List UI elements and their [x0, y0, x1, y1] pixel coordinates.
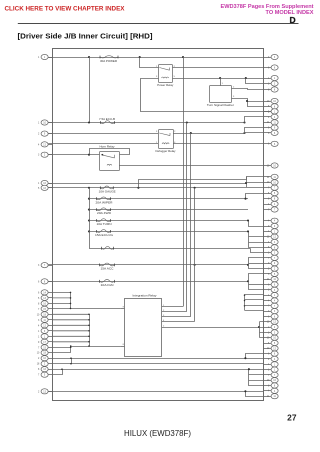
connector pin (right, y=198.6) [264, 196, 279, 201]
wire: bridge group 294.3-310.2 [244, 294, 246, 310]
connector pin (left stack, y=341.8) [38, 339, 52, 344]
node: fan tap (248,231.4) [247, 230, 249, 232]
connector pin (right stack, y=311.1) [264, 309, 279, 314]
svg-text:11: 11 [267, 177, 270, 179]
header rule [18, 23, 299, 25]
svg-text:Horn Relay: Horn Relay [100, 144, 116, 148]
wire: stub 263.2 [249, 263, 264, 265]
wire: TSF output 3 (y=98) [232, 99, 264, 102]
node: A taps [70, 292, 72, 294]
wire: main B+ feed (node 1 to right pin, y=57) [48, 57, 263, 59]
node: bus tap (231.4) [88, 230, 90, 232]
svg-text:6: 6 [38, 281, 40, 283]
node: fan tap (248,281.3) [247, 280, 249, 282]
horn relay box [100, 152, 120, 171]
connector pin (right stack, y=327.0) [264, 324, 279, 329]
connector pin (right, y=209.5) [264, 207, 279, 212]
connector pin (right stack, y=380.2) [264, 378, 279, 383]
svg-text:2: 2 [174, 131, 176, 133]
svg-text:10: 10 [37, 353, 40, 355]
connector pin (right stack, y=295.1) [264, 293, 279, 298]
wire: fan bridge 101-106.3 [248, 102, 264, 107]
svg-text:15A ACC: 15A ACC [101, 266, 115, 270]
horn relay switch contact [101, 155, 115, 158]
junction block frame [53, 49, 264, 401]
node: fan tap (245.4,391.3) [244, 390, 246, 392]
connector pin (right, y=78) [264, 75, 279, 80]
connector pin (right stack, y=247.3) [264, 245, 279, 250]
wire: fan-in A vertical x=70.5 [70, 292, 72, 308]
svg-text:3: 3 [38, 265, 40, 267]
connector pin 1 (left top) [38, 54, 52, 59]
svg-text:12: 12 [267, 237, 270, 239]
svg-text:10A IGN: 10A IGN [101, 283, 114, 287]
node: right fan tap (244.5,133) [243, 132, 245, 134]
svg-text:6: 6 [268, 133, 270, 135]
connector pin (right, y=116.9) [264, 114, 279, 119]
wire: stub 182.3 [247, 182, 264, 184]
wire: ACC row (y=264.9) [48, 264, 248, 266]
svg-text:4: 4 [38, 144, 40, 146]
connector pin (left, y=154.7) [38, 152, 52, 157]
node: horn loop junction (89,154.7) [88, 154, 90, 156]
connector pin (right stack, y=268.6) [264, 266, 279, 271]
node: bus tap at (89,57) [88, 56, 90, 58]
wire: vertical v2 x=186.8 (y122.5-311.5) [186, 123, 188, 312]
svg-text:4: 4 [38, 325, 40, 327]
node: A join (70.5,308.4) [70, 308, 72, 310]
fuse 30A POWER [100, 56, 118, 58]
wire: v1 to integration pin 1 [162, 306, 183, 308]
turn signal flasher box [210, 86, 232, 103]
svg-text:4: 4 [268, 391, 270, 393]
svg-text:4: 4 [268, 221, 270, 223]
connector pin (right stack, y=284.5) [264, 282, 279, 287]
node: bus joins ECU-B (89,122.5) [88, 121, 90, 123]
wire: join 374.7 up to 369.2 [53, 370, 63, 375]
svg-text:10A GAUGE: 10A GAUGE [99, 189, 116, 193]
node: v3 tap (190.8,133) [190, 132, 192, 134]
connector pin (right stack, y=385.5) [264, 383, 279, 388]
wire: bus x=89 from y57 to ECU-B wire [89, 57, 91, 123]
wire: defogger relay contact row (y=133) [48, 133, 158, 135]
wire: row y=369.2 full [52, 369, 263, 371]
svg-text:8: 8 [38, 303, 40, 305]
wire: horn coil loop [90, 149, 130, 155]
wire: 20A WIPER row (y=198.7) [89, 198, 248, 200]
wire: fan bridge 390.9-396.1 [246, 392, 264, 397]
connector pin (right, y=111.4) [264, 109, 279, 114]
power relay U1 box [159, 65, 173, 83]
node: vertical v1 tap at (183,57) [182, 56, 184, 58]
node: right fan tap (245.8,78) [245, 77, 247, 79]
connector pin (right stack, y=273.9) [264, 271, 279, 276]
node: C taps [70, 345, 72, 347]
svg-text:7: 7 [38, 309, 40, 311]
connector pin (right stack, y=279.2) [264, 277, 279, 282]
connector pin (right, y=193.1) [264, 191, 279, 196]
connector pin (right, y=187.7) [264, 185, 279, 190]
connector pin (right stack, y=337.7) [264, 335, 279, 340]
wire: 15A ECU-IG row (y=231.4) [89, 231, 248, 233]
svg-text:27: 27 [287, 412, 297, 422]
integration relay pin 9 stub [121, 308, 125, 310]
wire: power relay coil feed L-drop x=139.7 [140, 58, 159, 68]
connector pin (right stack, y=332.4) [264, 330, 279, 335]
connector pin (right, y=127.6) [264, 125, 279, 130]
wire: fan bridge 369.2-385.5 [249, 370, 264, 386]
svg-text:2: 2 [38, 134, 40, 136]
connector pin (right stack, y=226.0) [264, 223, 279, 228]
wire: fuse bus x=89 (y187.8-248.2) [89, 188, 91, 248]
connector pin (left stack, y=308.9) [38, 306, 52, 311]
svg-text:4: 4 [268, 117, 270, 119]
svg-text:Power Relay: Power Relay [157, 83, 174, 87]
connector pin (right, y=176.9) [264, 174, 279, 179]
connector pin (right, y=122.3) [264, 120, 279, 125]
wire: v2 to integration pin 2 [162, 311, 187, 313]
fuse 20A WIPER [97, 197, 111, 200]
node: B join (89,346) [88, 345, 90, 347]
defogger relay coil symbol [162, 143, 169, 144]
connector pin (left, y=187.8) [38, 185, 52, 190]
svg-text:7.5A ECU-B: 7.5A ECU-B [99, 117, 115, 121]
wire: fan bridge 116.9-122.5 [245, 117, 264, 123]
connector pin (right, y=111.4) [264, 109, 279, 114]
svg-text:6: 6 [38, 292, 40, 294]
svg-text:2: 2 [38, 358, 40, 360]
node: pin5 fan tap (259,327) [258, 326, 260, 328]
wire: defogger contact out (y=133) [173, 133, 245, 135]
wire: defogger coil row (y=143.8) [48, 143, 158, 145]
connector pin (right stack, y=343.0) [264, 340, 279, 345]
connector pin (left, y=122.5) [38, 120, 52, 125]
wire: horn relay feed (y=154.7) [48, 154, 99, 156]
svg-text:20A 4WD: 20A 4WD [97, 211, 112, 215]
wire: fan stub 132.9 [245, 133, 264, 134]
connector pin (left stack, y=319.8) [38, 317, 52, 322]
wire: fan bridge ECU-IG 231.4-247.3 [249, 232, 264, 248]
connector pin (right, y=132.9) [264, 130, 279, 135]
connector pin (right stack, y=305.8) [264, 303, 279, 308]
connector pin (right stack, y=231.3) [264, 229, 279, 234]
connector pin (right stack, y=369.6) [264, 367, 279, 372]
node: fan tap (248.9,369.2) [248, 368, 250, 370]
fuse 15A ECU-IG [97, 230, 111, 233]
svg-text:4: 4 [268, 359, 270, 361]
wire: power relay coil return via x=140.4 down to y=111.4 [141, 79, 264, 112]
connector pin (right stack, y=396.2) [264, 394, 279, 399]
svg-text:8: 8 [38, 369, 40, 371]
node: right fan tap (244.5,122.5) [243, 121, 245, 123]
connector pin (right stack, y=263.2) [264, 261, 279, 266]
svg-text:Integration Relay: Integration Relay [133, 294, 158, 298]
connector pin (left stack, y=363.7) [37, 361, 52, 366]
wire: fan bridge ACC 257.9-268.5 [249, 258, 264, 269]
connector pin (right, y=67.5) [264, 65, 279, 70]
connector pin (right, y=57) [264, 54, 279, 59]
connector pin (left, y=144.4) [38, 142, 52, 147]
fuse 10A TURN [97, 219, 111, 222]
svg-text:[Driver Side J/B Inner Circuit: [Driver Side J/B Inner Circuit] [RHD] [18, 33, 153, 40]
svg-text:CLICK HERE TO VIEW CHAPTER IND: CLICK HERE TO VIEW CHAPTER INDEX [5, 6, 126, 13]
connector pin (left stack, y=352.7) [37, 350, 52, 355]
connector pin (right, y=101.0) [264, 98, 279, 103]
wire: fan bridge 248.2-252.6 [251, 249, 264, 253]
wire: stubs group 294-310 [245, 295, 264, 311]
wire: feed to integration pin 8 [71, 346, 121, 348]
wire: fan-in B stubs [52, 314, 89, 342]
defogger relay switch contact [159, 133, 170, 136]
node: v2 tap (186.8,122.5) [186, 121, 188, 123]
integration relay U2 box [125, 299, 162, 357]
connector pin (right stack, y=236.7) [264, 234, 279, 239]
power relay coil symbol [162, 77, 169, 78]
connector pin (right stack, y=316.4) [264, 314, 279, 319]
connector pin (left stack, y=325.3) [38, 323, 52, 328]
svg-text:1: 1 [38, 123, 40, 125]
connector pin (right, y=89.5) [264, 87, 279, 92]
connector pin (right stack, y=252.6) [264, 250, 279, 255]
svg-text:3: 3 [156, 131, 158, 133]
wire: integration pin5 out (y=327) [162, 327, 264, 329]
svg-text:7: 7 [268, 258, 270, 260]
wire: jog up to y=179 feeder [139, 177, 247, 188]
svg-text:1: 1 [222, 83, 224, 85]
fuse on y=248.2 row [102, 246, 114, 249]
svg-text:7: 7 [268, 188, 270, 190]
wire: fan bridge 127.6-133 [245, 128, 264, 134]
connector pin (right stack, y=220.7) [264, 218, 279, 223]
svg-text:1: 1 [38, 183, 40, 185]
connector pin (right stack, y=257.9) [264, 255, 279, 260]
node: B taps [88, 314, 90, 316]
svg-text:20A WIPER: 20A WIPER [96, 200, 114, 204]
connector pin (right stack, y=242.0) [264, 239, 279, 244]
wire: row y=187.8 (fuse bus feed) [48, 187, 246, 189]
node: jog-up tap (138.4,187.8) [137, 187, 139, 189]
connector pin (left, y=133) [38, 131, 52, 136]
fuse 10A GAUGE [100, 186, 113, 189]
connector pin (left stack, y=303.4) [38, 301, 52, 306]
svg-text:3: 3 [156, 76, 158, 78]
node: join (62,369.2) [61, 368, 63, 370]
wire: right fan bridge 78-83.5 [246, 79, 264, 84]
wire: join vertical x=71 (358.2-363.7) [71, 358, 73, 364]
svg-text:30A POWER: 30A POWER [100, 59, 118, 63]
node: power relay tap at (139.7,57) [139, 56, 141, 58]
node: bus tap (198.7) [88, 198, 90, 200]
connector pin (right stack, y=374.9) [264, 372, 279, 377]
wire: vertical v4 x=194.6 (y187.8-321.5) [194, 188, 196, 322]
connector pin (right, y=106.3) [264, 104, 279, 109]
connector pin (right stack, y=321.7) [264, 319, 279, 324]
wire: TSF output 2 (y=88.2) [232, 89, 264, 90]
node: fan tap (245.4,358.2) [244, 357, 246, 359]
svg-text:5: 5 [38, 298, 40, 300]
defogger relay box [159, 130, 174, 149]
node: join (71,363.7) [70, 363, 72, 365]
wire: stub 284.4 [249, 284, 264, 286]
connector pin (left stack, y=369.2) [38, 367, 52, 372]
fuse 20A 4WD [97, 208, 111, 211]
wire: stubs group 321-337 [260, 322, 264, 338]
wire: v4 to integration pin 4 [162, 321, 195, 323]
node: v4 crossing tap (194.6,264.9) [194, 264, 196, 266]
connector pin (left stack, y=358.2) [38, 356, 52, 361]
svg-text:10A TURN: 10A TURN [97, 222, 112, 226]
svg-text:10: 10 [37, 314, 40, 316]
power relay switch contact [159, 68, 169, 71]
node: bus start (89,187.8) [88, 187, 90, 189]
node: bus tap (209.6) [88, 209, 90, 211]
node: join (71,358.2) [70, 357, 72, 359]
connector pin (right, y=165.5) [264, 163, 279, 168]
connector pin (right stack, y=358.9) [264, 356, 279, 361]
wire: fan-in B vertical x=89 [89, 314, 91, 346]
wire: fan-in C vertical x=70.7 [70, 346, 72, 353]
node: TSF tap (220.1,78) [219, 77, 221, 79]
fuse 15A ACC [100, 263, 115, 266]
svg-text:1: 1 [38, 331, 40, 333]
wire: fan bridge TURN 220.7-226.0 [249, 221, 264, 227]
svg-text:7: 7 [268, 306, 270, 308]
connector pin (left, y=281.4) [38, 279, 52, 284]
svg-text:3: 3 [38, 320, 40, 322]
connector pin (left stack, y=292.4) [38, 290, 52, 295]
node: fan tap (246,183) [245, 182, 247, 184]
wire: v3 to integration pin 3 [162, 316, 191, 318]
wire: defogger coil out (y=143.8) [173, 143, 264, 145]
node: fan tap (247,101) [246, 100, 248, 102]
svg-text:7: 7 [38, 375, 40, 377]
svg-text:HILUX (EWD378F): HILUX (EWD378F) [124, 429, 191, 438]
horn relay coil symbol [107, 164, 112, 165]
svg-text:7: 7 [268, 375, 270, 377]
wire: row y=183 full [48, 183, 246, 185]
connector pin (right stack, y=300.5) [264, 298, 279, 303]
connector pin (right stack, y=348.3) [264, 346, 279, 351]
connector pin (left stack, y=336.3) [38, 334, 52, 339]
node: fan tap (248,264.9) [247, 264, 249, 266]
connector pin (left stack, y=297.9) [38, 295, 52, 300]
svg-text:Turn Signal Flasher: Turn Signal Flasher [207, 103, 234, 107]
connector pin (left stack, y=374.7) [38, 372, 52, 377]
connector pin (right, y=143.8) [264, 141, 279, 146]
connector pin (right, y=204.0) [264, 201, 279, 206]
svg-text:7: 7 [38, 347, 40, 349]
wire: 10A TURN row (y=220.5) [89, 220, 248, 222]
wire: power relay switched rail (y=78) [173, 78, 264, 80]
wire: fan-in C stubs [53, 348, 71, 353]
node: fan tap (245.5,198.7) [244, 198, 246, 200]
svg-text:Defogger Relay: Defogger Relay [156, 149, 177, 153]
connector pin (left, y=183) [38, 180, 52, 185]
wire: fan bridge IGN 273.8-289.1 [249, 274, 264, 290]
svg-text:1: 1 [38, 336, 40, 338]
svg-text:6: 6 [268, 144, 270, 146]
svg-text:5: 5 [268, 274, 270, 276]
wire: fan bridge 353.6-358.2 [246, 354, 264, 359]
connector pin (left stack, y=347.3) [38, 345, 52, 350]
node: v4 top tap (194.6,187.8) [194, 187, 196, 189]
wire: fan-in A stubs [52, 292, 70, 303]
node: horn switch pivot [102, 154, 104, 156]
wire: fan stubs 374.8/380.1 [249, 375, 264, 381]
connector pin (right stack, y=289.8) [264, 287, 279, 292]
wire: horn coil output (y=165.5) [119, 165, 264, 167]
wire: row y=358.2 full [52, 358, 263, 360]
connector pin (right stack, y=364.3) [264, 362, 279, 367]
fuse 7.5A ECU-B [101, 121, 115, 124]
node: bus tap (220.5) [88, 219, 90, 221]
wire: ECU-B row (y=122.5) [48, 122, 244, 124]
wire: power relay contact out (y=67.5) [173, 67, 264, 69]
wire: IGN row (y=281.3) [48, 281, 248, 283]
fuse 10A IGN [100, 280, 115, 283]
wire: vertical v1 x=183 (y57-306.5) [183, 57, 185, 307]
wire: fan bridge 176.9-187.7 [247, 177, 264, 188]
integration relay pin 8 stub [121, 346, 125, 348]
node: fan tap (248,220.5) [247, 219, 249, 221]
wire: feed to integration pin 9 [52, 308, 120, 310]
svg-text:3: 3 [268, 290, 270, 292]
svg-text:18: 18 [37, 364, 40, 366]
svg-text:15A ECU-IG: 15A ECU-IG [95, 233, 114, 237]
connector pin (right, y=83.5) [264, 81, 279, 86]
connector pin (left stack, y=314.3) [37, 312, 52, 317]
wire: row y=363.7 full [52, 363, 263, 365]
svg-text:5: 5 [174, 76, 176, 78]
connector pin (left, y=391.3) [38, 389, 52, 394]
connector pin (left, y=265.1) [38, 263, 52, 268]
wire: row y=391.3 full [48, 391, 263, 393]
svg-text:1: 1 [38, 57, 40, 59]
connector pin (right, y=182.3) [264, 180, 279, 185]
svg-text:9: 9 [38, 342, 40, 344]
connector pin (left stack, y=330.8) [38, 328, 52, 333]
svg-text:2: 2 [38, 391, 40, 393]
wire: 20A 4WD row (y=209.6) [89, 209, 248, 211]
svg-text:5: 5 [38, 188, 40, 190]
wire: bridge group 321.6-337.5 [259, 322, 261, 338]
wire: vertical v3 x=190.8 (y133-316.5) [190, 133, 192, 317]
wire: fan bridge WIPER 193.1-198.6 [246, 194, 264, 199]
wire: unlabeled fuse row from bus corner (y=248.2) [89, 248, 251, 250]
svg-text:3: 3 [233, 96, 235, 98]
wire: TSF supply pin drop [220, 78, 222, 86]
connector pin (right stack, y=390.8) [264, 388, 279, 393]
svg-text:3: 3 [38, 155, 40, 157]
connector pin (right stack, y=353.6) [264, 351, 279, 356]
